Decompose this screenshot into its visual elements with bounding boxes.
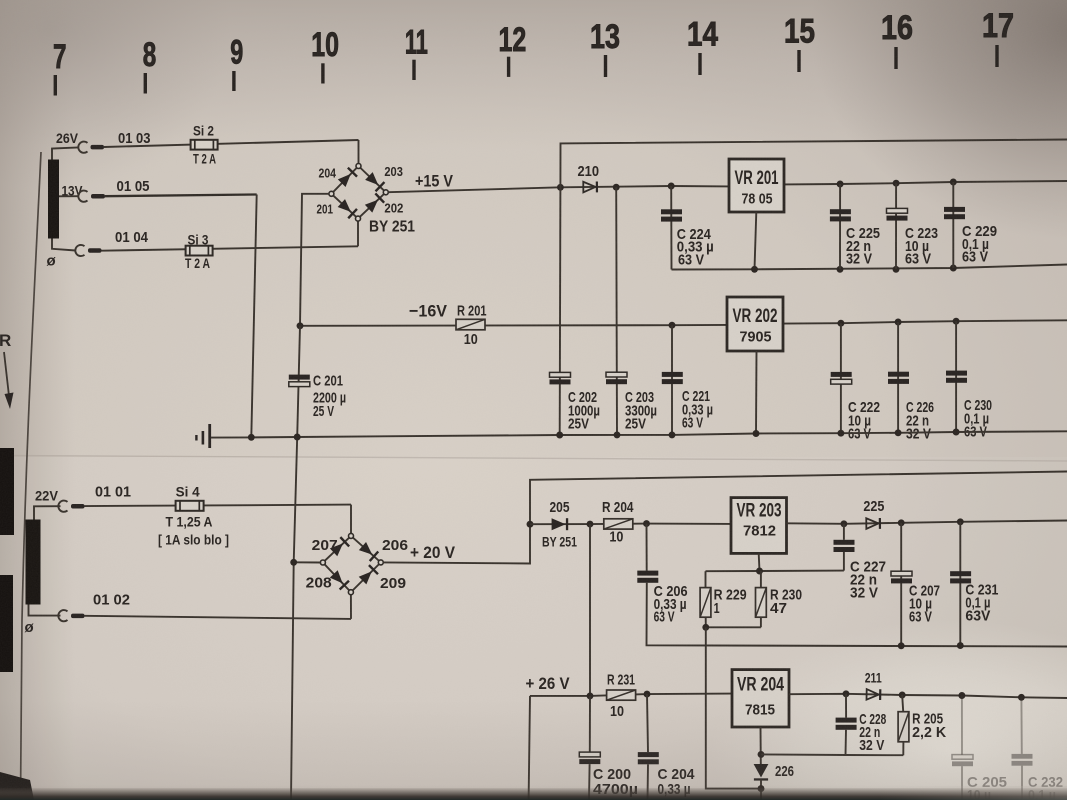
node gnd/C202 bbox=[556, 432, 563, 439]
resistor R201 bbox=[456, 319, 485, 330]
bridge2 node top bbox=[349, 533, 354, 538]
underlying sheet edge bbox=[0, 456, 1067, 462]
wire R229 top lead bbox=[705, 571, 707, 587]
connector 0102 bbox=[58, 610, 67, 621]
node +15V/x560 bbox=[557, 184, 564, 191]
node gnd/C230 bbox=[953, 429, 960, 436]
diode 226 bbox=[754, 764, 769, 778]
node +12V/C207 bbox=[898, 519, 905, 526]
wire R230 bottom lead bbox=[760, 617, 762, 627]
wire 13V tap down to ground rail bbox=[251, 195, 256, 438]
node 205/R204 bbox=[587, 521, 594, 528]
wire +20V output bbox=[383, 472, 1067, 564]
capacitor C205 (faded) bbox=[952, 755, 973, 767]
wire C206 vertical bbox=[646, 524, 648, 571]
wire C223 vertical bbox=[895, 183, 897, 269]
node -16V/C222 bbox=[837, 320, 844, 327]
diode 203 bbox=[364, 171, 385, 192]
connector 0103 bbox=[78, 142, 87, 153]
wire T1 top to connector bbox=[52, 147, 79, 159]
wire C232 bottom (faded) bbox=[1021, 766, 1023, 800]
capacitor C224 bbox=[661, 209, 682, 214]
diode 202 bbox=[364, 193, 385, 214]
node +12V/C231 bbox=[957, 518, 964, 525]
wire T2 top to connector bbox=[34, 506, 61, 519]
voltage regulator U VR202 bbox=[727, 297, 783, 351]
capacitor C202 bbox=[550, 372, 571, 377]
node +15V/x616 bbox=[613, 184, 620, 191]
resistor R205 bbox=[898, 712, 909, 742]
bridge node top bbox=[356, 164, 361, 169]
diode 208 bbox=[329, 570, 350, 591]
bridge2 node right bbox=[378, 560, 383, 565]
wire C204 vertical bbox=[647, 694, 648, 752]
wire C228 bottom lead bbox=[845, 730, 848, 755]
node VR203gnd/R230 bbox=[756, 568, 763, 575]
diode 225 bbox=[866, 518, 881, 529]
node gnd/C226 bbox=[895, 429, 902, 436]
label C205 (faded) bbox=[967, 774, 1007, 800]
node gnd-return/C223 bbox=[893, 266, 900, 273]
wire +26V rail bbox=[530, 694, 732, 696]
node +12V/C227 bbox=[840, 520, 847, 527]
page fold line left bbox=[21, 152, 42, 800]
node gnd/13V tap bbox=[248, 434, 255, 441]
wire +15V rail right of VR201 bbox=[784, 181, 1067, 184]
wire C221 vertical bbox=[671, 325, 673, 435]
fuse Si2 bbox=[191, 140, 218, 150]
transformer T1 winding bbox=[48, 160, 59, 239]
wire 0101 bbox=[85, 505, 352, 507]
node +15V/x953 bbox=[950, 179, 957, 186]
bridge node bottom bbox=[356, 216, 361, 221]
capacitor C232 (faded) bbox=[1012, 754, 1033, 766]
node -16V/bridge1 minus bbox=[297, 322, 304, 329]
wire C228 vertical bbox=[845, 694, 847, 718]
node +15V/x840 bbox=[837, 181, 844, 188]
wire C202 vertical bbox=[559, 187, 562, 435]
wire C226 vertical bbox=[897, 322, 899, 433]
wire 0102 bbox=[85, 616, 352, 619]
capacitor C229 bbox=[944, 207, 965, 212]
grid tick 9 bbox=[232, 71, 235, 91]
capacitor C222 bbox=[831, 372, 852, 377]
connector 0105 bbox=[78, 191, 87, 202]
dark print-through block 1 bbox=[0, 448, 14, 535]
wire x590 vertical (205 node to +26V rail) bbox=[589, 524, 591, 696]
wire C204 bottom bbox=[647, 764, 650, 800]
wire VR202 gnd pin bbox=[755, 351, 758, 434]
node R-bottom junction bbox=[702, 624, 709, 631]
fuse Si3 bbox=[186, 246, 213, 256]
wire C227 bottom lead bbox=[843, 552, 845, 571]
wire C230 vertical bbox=[955, 321, 957, 432]
node gnd-return/VR201 bbox=[751, 266, 758, 273]
capacitor C228 bbox=[836, 718, 857, 723]
node VR204gnd/754line bbox=[758, 751, 765, 758]
wire C205 bottom (faded) bbox=[961, 766, 963, 800]
wire C203 vertical bbox=[615, 187, 618, 435]
wire C200 vertical bbox=[589, 696, 591, 752]
ground symbol bbox=[208, 424, 211, 448]
node gnd-return/C225 bbox=[837, 266, 844, 273]
capacitor C203 bbox=[606, 372, 627, 377]
node R204/C206 bbox=[643, 520, 650, 527]
wire R229/R230 bottom line bbox=[706, 626, 761, 628]
wire 226 bottom lead bbox=[760, 780, 762, 800]
node out/C205 bbox=[958, 692, 965, 699]
node gnd/C222 bbox=[837, 430, 844, 437]
diode 211 bbox=[867, 689, 882, 700]
wire -16V rail right of VR202 bbox=[783, 320, 1067, 323]
grid tick 7 bbox=[54, 75, 57, 96]
wire 0103 corner down to bridge top bbox=[358, 140, 360, 164]
bridge2 node left bbox=[320, 560, 325, 565]
wire bridge2 left to long vertical bbox=[294, 561, 321, 563]
node gnd/VR202 bbox=[753, 430, 760, 437]
wire 754 line bbox=[761, 753, 903, 756]
wire C205 vertical (faded) bbox=[961, 696, 963, 755]
node gnd/C203 bbox=[614, 431, 621, 438]
node gnd/C201 bbox=[294, 434, 301, 441]
resistor R230 bbox=[756, 588, 767, 618]
voltage regulator U VR203 bbox=[731, 498, 787, 554]
wire +26V left corner down bbox=[529, 696, 530, 800]
transformer T2 winding bbox=[26, 520, 41, 605]
grid tick 10 bbox=[321, 63, 324, 83]
bridge node left bbox=[329, 191, 334, 196]
capacitor C225 bbox=[830, 209, 851, 214]
wire 0104 up to bridge bottom bbox=[357, 221, 359, 246]
wire C222 vertical bbox=[840, 323, 842, 433]
node +15V/x671 bbox=[668, 183, 675, 190]
wire R229/R230 top line bbox=[706, 570, 844, 573]
dark bottom-left corner bbox=[0, 772, 34, 800]
node -16V/C230 bbox=[953, 318, 960, 325]
bridge rectifier 2 frame bbox=[323, 536, 381, 592]
wire bridge minus to left bbox=[300, 194, 329, 326]
grid tick 11 bbox=[412, 60, 415, 80]
wire top bypass line bbox=[560, 140, 1067, 188]
wire T1 bottom to connector bbox=[52, 239, 76, 251]
wire VR201 gnd pin bbox=[755, 212, 757, 269]
wire ground lead bbox=[211, 436, 251, 438]
diode 205 bbox=[552, 518, 569, 530]
wire +15V rail left of VR201 bbox=[388, 186, 729, 192]
wire -16V rail left of VR202 bbox=[300, 324, 727, 327]
wire C229 vertical bbox=[952, 182, 954, 268]
wire VR204 gnd pin bbox=[760, 727, 762, 764]
wire C206 bottom corner bbox=[647, 583, 1067, 647]
diode 204 bbox=[337, 167, 358, 188]
label C232 (faded) bbox=[1028, 774, 1063, 800]
node out/C228 bbox=[843, 690, 850, 697]
arrow left margin bbox=[4, 352, 9, 396]
diode 207 bbox=[329, 536, 350, 557]
connector 0101 bbox=[58, 501, 67, 512]
capacitor C223 bbox=[887, 208, 908, 213]
capacitor C201 bbox=[289, 375, 310, 380]
fuse Si4 bbox=[176, 501, 204, 511]
wire C224 vertical bbox=[670, 186, 672, 270]
node C206line/C231 bbox=[957, 642, 964, 649]
diode 206 bbox=[358, 541, 379, 562]
capacitor C206 bbox=[637, 571, 658, 576]
resistor R204 bbox=[604, 519, 633, 529]
wire C225 vertical bbox=[839, 184, 841, 269]
node bridge2/long vertical bbox=[290, 559, 297, 566]
wire C232 vertical (faded) bbox=[1020, 697, 1022, 754]
wire R205 top lead bbox=[902, 695, 903, 712]
wire VR204 output bbox=[789, 694, 1067, 698]
resistor R231 bbox=[607, 690, 636, 700]
wire 0102 up to bridge2 bottom bbox=[350, 595, 352, 619]
connector 0104 bbox=[75, 245, 84, 256]
wire long vertical to VR204 gnd bbox=[706, 627, 761, 788]
node gnd-return/C229 bbox=[950, 265, 957, 272]
dark print-through block 2 bbox=[0, 575, 13, 672]
node -16V/C226 bbox=[895, 319, 902, 326]
grid tick 16 bbox=[894, 47, 897, 69]
wire T2 bottom to connector bbox=[29, 605, 61, 616]
node out/C232 bbox=[1018, 694, 1025, 701]
capacitor C226 bbox=[888, 372, 909, 377]
bridge node right bbox=[383, 190, 388, 195]
capacitor C207 bbox=[891, 571, 912, 576]
capacitor C200 bbox=[579, 752, 600, 757]
wire VR203 output bbox=[787, 521, 1067, 524]
wire 0103 bbox=[104, 140, 359, 147]
node C206line/C207 bbox=[898, 642, 905, 649]
grid tick 13 bbox=[604, 55, 607, 77]
wire R230 top lead bbox=[760, 571, 762, 588]
grid tick 8 bbox=[144, 73, 147, 94]
node out/R205 bbox=[899, 692, 906, 699]
grid tick 12 bbox=[507, 57, 510, 77]
bridge rectifier BY251 frame bbox=[331, 166, 385, 219]
capacitor C230 bbox=[946, 371, 967, 376]
wire R205 bottom lead bbox=[902, 742, 904, 755]
wire C227 vertical bbox=[843, 524, 845, 540]
capacitor C231 bbox=[950, 571, 971, 576]
node +26V/C204 bbox=[644, 691, 651, 698]
wire ground rail bbox=[251, 431, 1067, 437]
resistor R229 bbox=[700, 588, 711, 618]
capacitor C227 bbox=[834, 540, 855, 545]
diode 210 bbox=[583, 182, 598, 193]
grid tick 17 bbox=[995, 45, 998, 67]
wire VR201 ground return line bbox=[672, 265, 1067, 270]
node +20V branch bbox=[527, 521, 534, 528]
node gnd/C221 bbox=[669, 431, 676, 438]
node 226/VR204gnd return bbox=[758, 785, 765, 792]
wire C231 vertical bbox=[959, 522, 961, 646]
diode 209 bbox=[358, 564, 379, 585]
voltage regulator U VR201 bbox=[729, 159, 784, 212]
diode 201 bbox=[337, 198, 358, 219]
wire 0104 bbox=[102, 246, 359, 250]
capacitor C204 bbox=[638, 752, 659, 757]
node +15V/x896 bbox=[893, 180, 900, 187]
bridge2 node bottom bbox=[348, 590, 353, 595]
grid tick 14 bbox=[698, 53, 701, 75]
wire 0101 corner down to bridge2 top bbox=[350, 505, 352, 534]
wire VR203 gnd pin bbox=[758, 553, 761, 571]
voltage regulator U VR204 bbox=[732, 670, 789, 727]
wire C201 vertical and long drop bbox=[291, 326, 300, 800]
node -16V/C221 bbox=[669, 322, 676, 329]
wire 205/R204 branch to VR203 bbox=[530, 523, 731, 526]
node +26V/C200 bbox=[587, 692, 594, 699]
grid tick 15 bbox=[797, 50, 800, 72]
wire 0105 (13V tap) bbox=[105, 195, 257, 197]
wire R229 bottom lead bbox=[705, 617, 707, 627]
wire C207 vertical bbox=[900, 523, 902, 646]
wire T1 mid tap to connector bbox=[59, 195, 79, 197]
photo bottom shadow bbox=[0, 700, 1067, 800]
capacitor C221 bbox=[662, 372, 683, 377]
wire C200 bottom bbox=[588, 764, 591, 800]
